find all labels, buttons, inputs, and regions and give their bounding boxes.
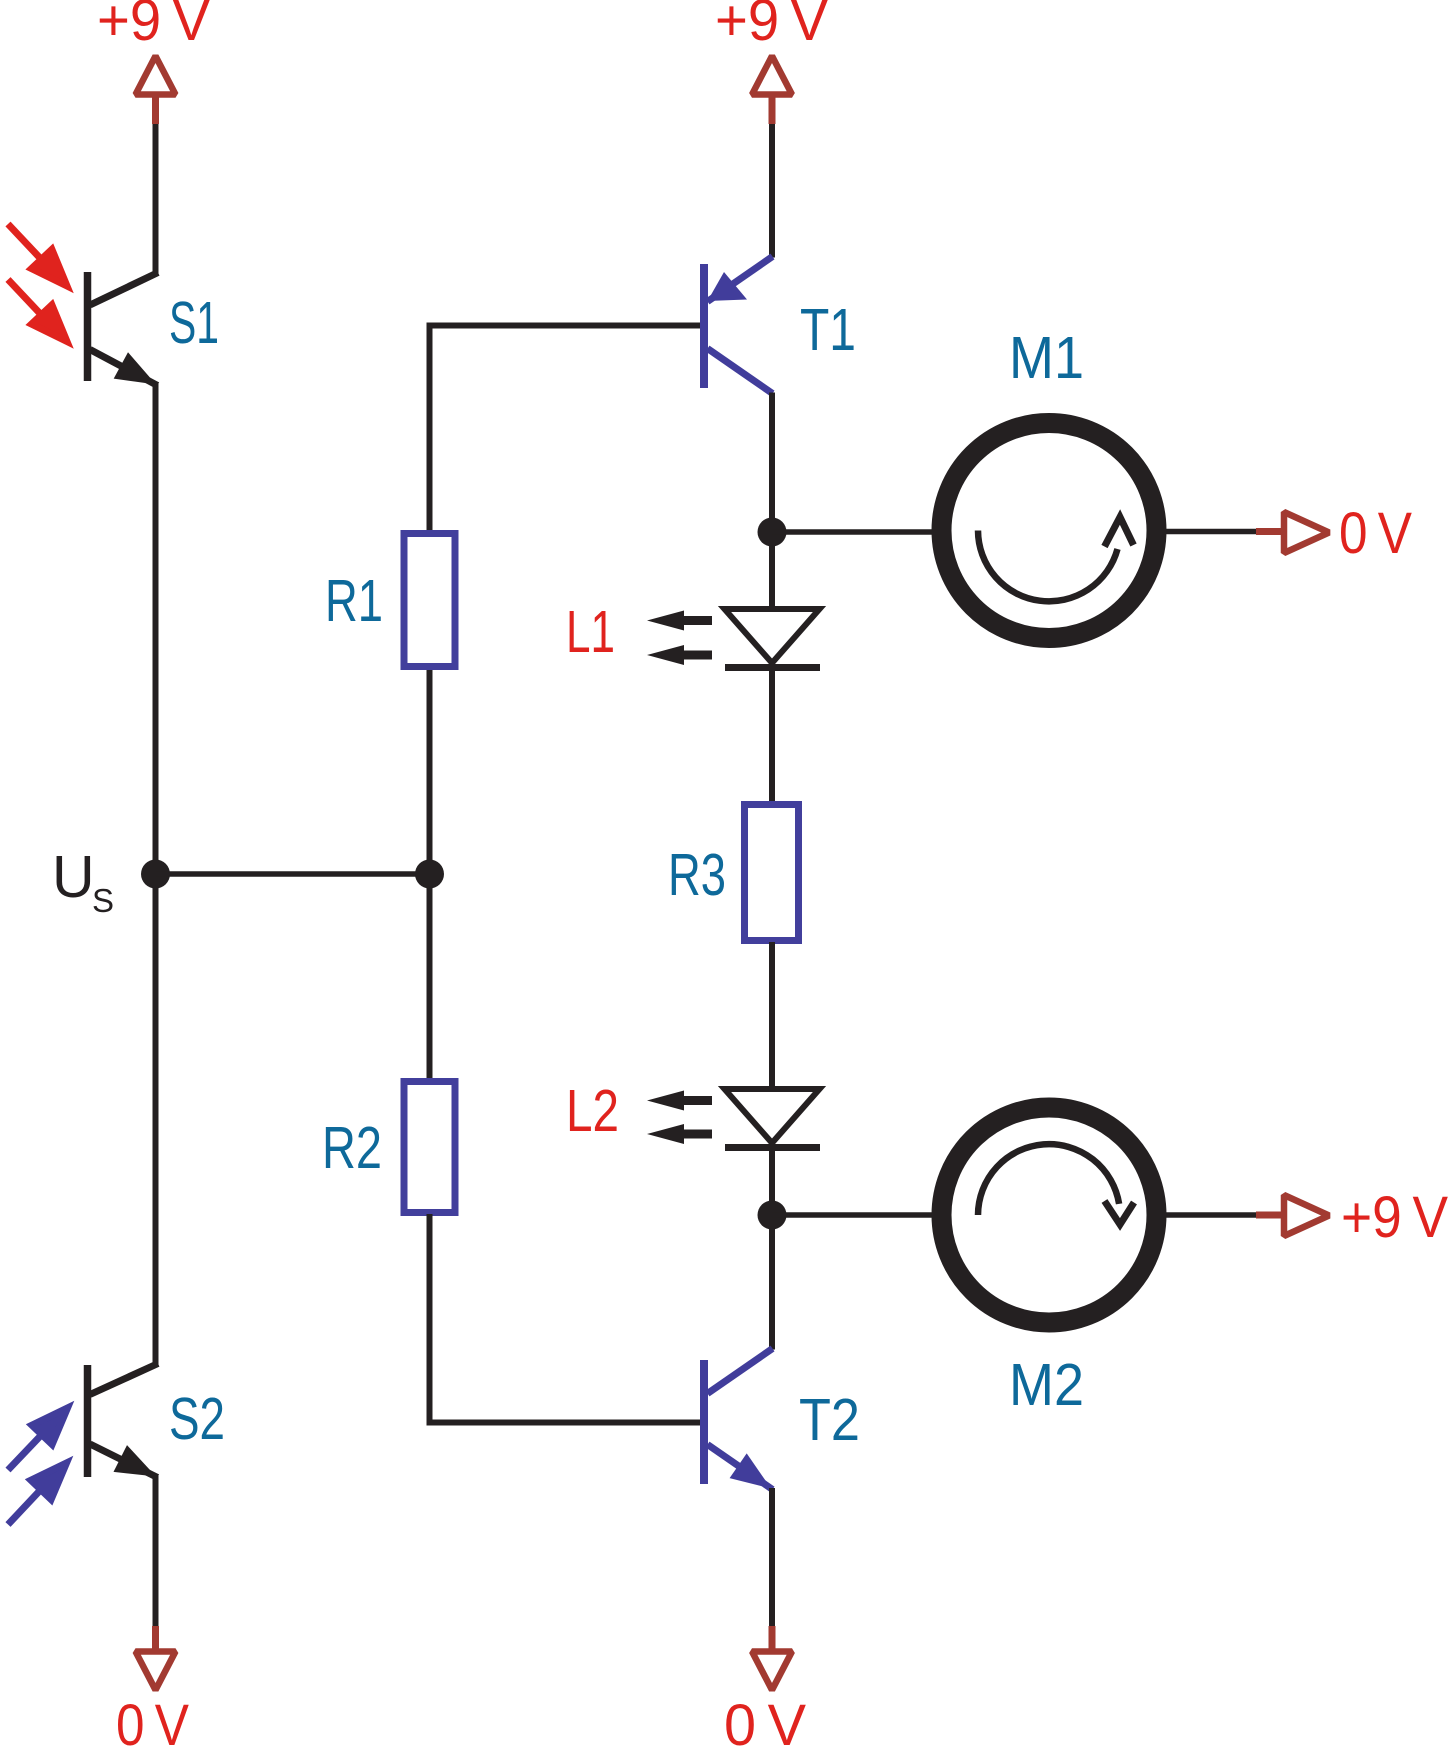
wire T2 emitter to ground <box>769 1488 775 1626</box>
wire node to motor M1 <box>772 529 935 535</box>
wire R3 to LED L2 <box>769 942 775 1088</box>
wire node to LED L1 <box>769 532 775 608</box>
wire node Us horizontal <box>156 871 430 877</box>
svg-text:U: U <box>52 844 95 910</box>
svg-text:0 V: 0 V <box>116 1693 189 1747</box>
svg-text:L2: L2 <box>566 1078 619 1144</box>
transistor T2 <box>704 1349 773 1490</box>
wire node to R2 top <box>427 874 433 1080</box>
svg-text:T2: T2 <box>799 1387 860 1453</box>
ground arrow 0V (bottom left) <box>136 1626 176 1690</box>
phototransistor S1 <box>88 272 159 386</box>
wire S1 emitter to node Us <box>153 384 159 875</box>
transistor T1 <box>704 257 773 394</box>
wire node Us to S2 collector <box>153 874 159 1365</box>
svg-text:S: S <box>92 882 114 919</box>
ground arrow 0V (bottom right) <box>752 1626 792 1690</box>
node junction (voltage divider) <box>415 860 444 889</box>
light arrows from L1 <box>647 611 712 666</box>
svg-text:L1: L1 <box>566 599 615 665</box>
wire R1 top to T1 base <box>430 326 701 533</box>
wire S2 emitter to ground <box>153 1476 159 1626</box>
resistor R3 <box>745 805 799 941</box>
wire M1 to 0V terminal <box>1163 529 1256 535</box>
motor M2 <box>942 1108 1157 1323</box>
supply arrow +9V (top right) <box>752 56 792 124</box>
wire node to T2 collector <box>769 1215 775 1350</box>
wire M2 to +9V terminal <box>1163 1212 1256 1218</box>
node Us junction <box>141 860 170 889</box>
wire L2 to node <box>769 1146 775 1216</box>
resistor R2 <box>404 1082 455 1213</box>
svg-text:R2: R2 <box>322 1115 382 1181</box>
svg-text:M1: M1 <box>1009 325 1084 391</box>
svg-text:0 V: 0 V <box>1339 501 1412 566</box>
wire T1 collector to node <box>769 393 775 534</box>
LED L2 <box>725 1089 821 1148</box>
supply arrow +9V (top left) <box>136 56 176 124</box>
motor M1 <box>942 423 1157 638</box>
svg-text:+9 V: +9 V <box>1341 1185 1448 1250</box>
light arrows into S2 <box>8 1408 68 1525</box>
svg-text:+9 V: +9 V <box>715 0 828 53</box>
wire supply to T1 emitter <box>769 124 775 258</box>
light arrows from L2 <box>647 1091 712 1145</box>
node L2/M2/T2 <box>758 1201 787 1230</box>
resistor R1 <box>404 534 455 667</box>
svg-text:R3: R3 <box>668 842 726 908</box>
phototransistor S2 <box>88 1364 159 1478</box>
svg-text:+9 V: +9 V <box>97 0 210 53</box>
svg-text:S2: S2 <box>169 1386 225 1452</box>
LED L1 <box>725 609 821 668</box>
svg-text:R1: R1 <box>325 568 383 634</box>
wire node to motor M2 <box>772 1212 935 1218</box>
terminal arrow 0V (right of M1) <box>1256 512 1329 553</box>
wire R2 bottom to T2 base <box>430 1214 701 1423</box>
wire R1 bottom to node <box>427 670 433 875</box>
wire supply to S1 collector <box>153 124 159 274</box>
svg-text:0 V: 0 V <box>724 1693 806 1747</box>
wire L1 to R3 <box>769 668 775 803</box>
light arrows into S1 <box>8 224 67 342</box>
node T1/M1/L1 <box>758 518 787 547</box>
svg-text:M2: M2 <box>1009 1352 1084 1418</box>
terminal arrow +9V (right of M2) <box>1256 1195 1329 1236</box>
svg-text:S1: S1 <box>169 290 219 356</box>
svg-text:T1: T1 <box>800 297 856 363</box>
